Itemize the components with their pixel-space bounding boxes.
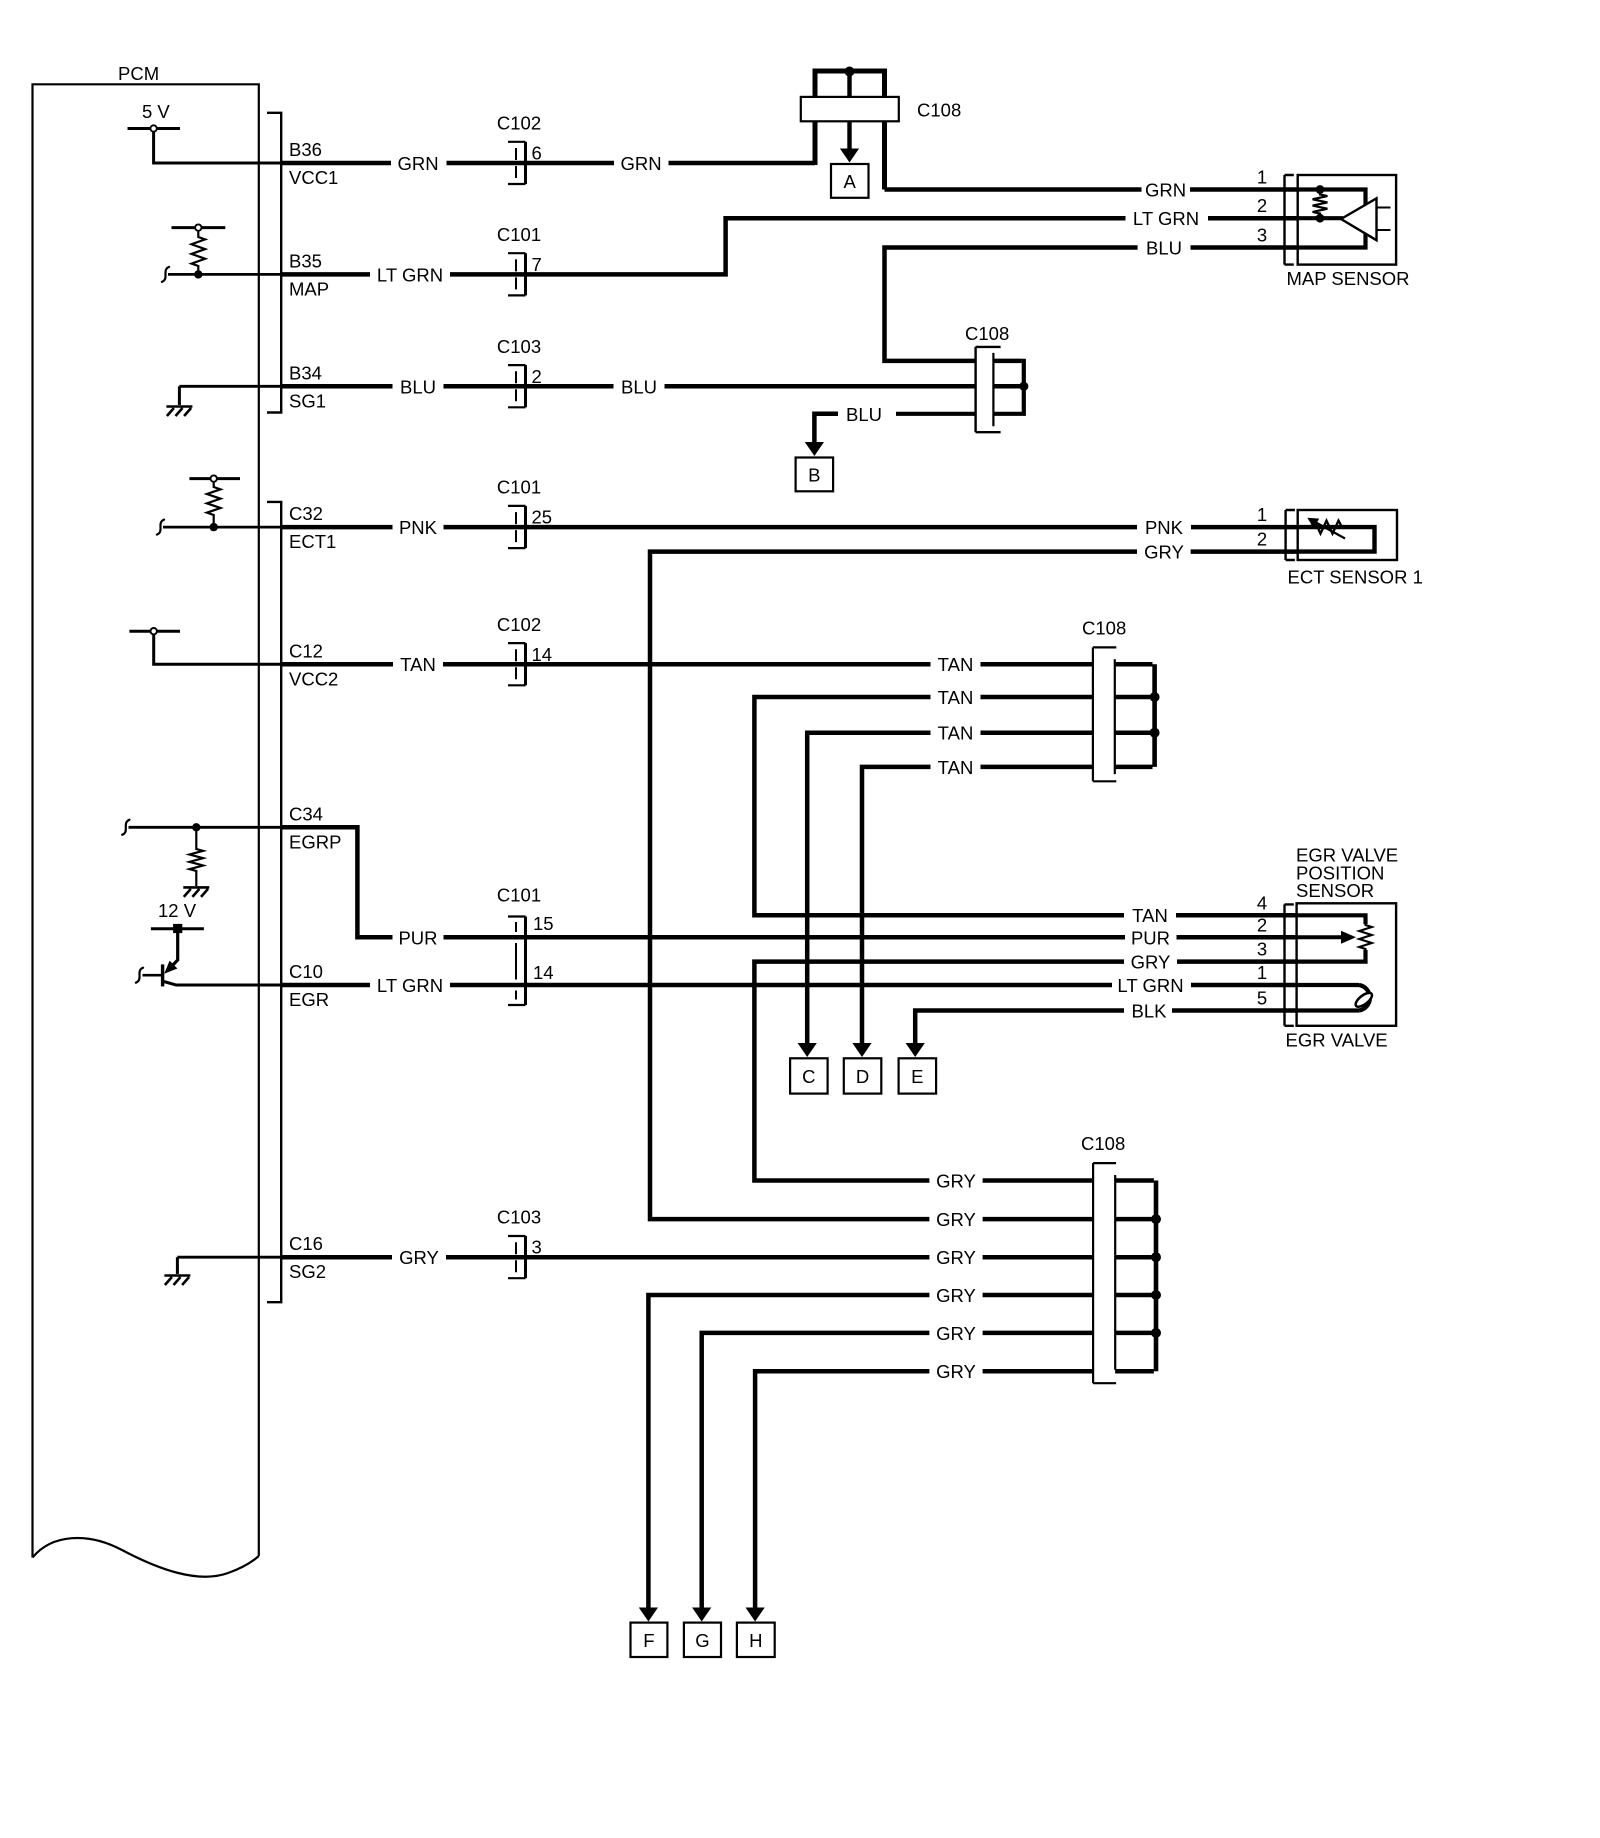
svg-text:GRY: GRY: [936, 1247, 976, 1268]
wire C10 LT GRN segment 1: [281, 983, 370, 988]
wire B34 BLU segment 2: [444, 384, 614, 389]
MAP sensor box: [1298, 175, 1396, 265]
transistor Q1 collector arrowhead: [164, 961, 177, 974]
EGR wiper wire: [1297, 935, 1342, 939]
svg-text:4: 4: [1257, 893, 1267, 914]
wire GRY row3 into C108: [983, 1255, 1154, 1260]
connector C101 pins 15/14 (C34,C10): [508, 917, 526, 1006]
wire TAN into EGR pin 4: [1176, 913, 1297, 918]
svg-text:C108: C108: [1081, 1133, 1125, 1154]
svg-text:2: 2: [1257, 529, 1267, 550]
svg-text:PCM: PCM: [118, 63, 159, 84]
EGR potentiometer wire loop: [1297, 915, 1366, 961]
svg-text:VCC2: VCC2: [289, 668, 338, 689]
svg-text:EGR: EGR: [289, 989, 329, 1010]
thermistor RT1 arrow: [1316, 523, 1345, 539]
svg-text:PNK: PNK: [1145, 517, 1184, 538]
svg-text:C: C: [802, 1066, 815, 1087]
wire PUR into EGR pin 2: [1177, 935, 1298, 940]
wire BLK to arrow E: [915, 1011, 1124, 1046]
connector C102 pin 14 (C12): [508, 643, 526, 685]
svg-text:7: 7: [532, 254, 542, 275]
arrow into E: [906, 1043, 925, 1057]
wire GRY row4 to arrow F: [648, 1295, 1154, 1608]
svg-text:GRY: GRY: [936, 1209, 976, 1230]
wire BLK from EGR pin 5: [1172, 1008, 1297, 1013]
wire VCC2 to C12 pin (inside PCM): [154, 634, 282, 664]
svg-text:C108: C108: [1082, 618, 1126, 639]
wire TAN row3 from splice down to arrow C: [807, 733, 1152, 1045]
transistor Q1 collector from 12 V: [171, 933, 178, 968]
svg-text:GRY: GRY: [936, 1285, 976, 1306]
box A (circuit continuation): [831, 164, 869, 198]
wire PNK into ECT: [1191, 525, 1298, 530]
svg-text:E: E: [911, 1066, 923, 1087]
EGR solenoid coil: [1297, 985, 1359, 1011]
wire break squiggle (Q1 base): [136, 968, 143, 983]
junction dot MAP resistor top: [1316, 185, 1325, 194]
EGR sensor box: [1297, 903, 1397, 1026]
svg-text:C102: C102: [497, 113, 541, 134]
wire break squiggle (C34): [122, 820, 129, 835]
wire B36 GRN segment 2: [447, 161, 615, 166]
svg-text:GRY: GRY: [1131, 952, 1171, 973]
svg-text:SENSOR: SENSOR: [1296, 880, 1374, 901]
wire BLU to arrow B: [814, 414, 838, 442]
VCC2 supply terminal: [129, 630, 180, 633]
wire C34 EGRP jog down to PUR row: [281, 827, 392, 937]
svg-text:VCC1: VCC1: [289, 167, 338, 188]
svg-text:B35: B35: [289, 250, 322, 271]
svg-text:TAN: TAN: [938, 687, 974, 708]
svg-text:5: 5: [1257, 988, 1267, 1009]
wire TAN row1 into C108: [981, 662, 1153, 667]
MAP internal supply/return wire: [1298, 190, 1366, 248]
svg-text:GRY: GRY: [936, 1171, 976, 1192]
thermistor RT1 zigzag: [1311, 521, 1342, 534]
junction dot GRY row5: [1151, 1328, 1161, 1338]
svg-text:C34: C34: [289, 803, 323, 824]
svg-text:C12: C12: [289, 640, 323, 661]
wire B36 GRN segment 1: [281, 161, 391, 166]
junction dot GRY row2: [1151, 1214, 1161, 1224]
svg-text:15: 15: [533, 913, 554, 934]
svg-text:C32: C32: [289, 503, 323, 524]
connector C103 pin 2 (B34): [508, 365, 526, 407]
wire C32 PNK segment 1: [281, 525, 392, 530]
svg-text:B: B: [808, 464, 820, 485]
arrow into D: [852, 1043, 871, 1057]
svg-text:3: 3: [1257, 225, 1267, 246]
wire C108 splice loop (GRN up-over-down to MAP pin 1): [815, 71, 885, 190]
wire BLU from MAP pin 3: [1191, 245, 1299, 250]
svg-text:GRN: GRN: [620, 153, 661, 174]
svg-text:2: 2: [1257, 914, 1267, 935]
svg-text:TAN: TAN: [938, 723, 974, 744]
svg-text:C101: C101: [497, 885, 541, 906]
wire C10 inside PCM: [176, 984, 281, 987]
svg-text:C102: C102: [497, 614, 541, 635]
svg-text:C10: C10: [289, 961, 323, 982]
wire GRN to MAP pin 1: [885, 187, 1142, 192]
connector C102 pin 6 (B36): [508, 142, 526, 184]
svg-text:TAN: TAN: [938, 654, 974, 675]
svg-text:TAN: TAN: [400, 654, 436, 675]
svg-text:C16: C16: [289, 1233, 323, 1254]
12 V supply terminal: [151, 927, 204, 930]
op-amp output stubs: [1377, 208, 1391, 231]
connector C108 (BLU splice): [976, 347, 995, 432]
wire B34 BLU segment 3 into C108 splice: [665, 384, 1022, 389]
box D (circuit continuation): [844, 1058, 882, 1093]
svg-text:TAN: TAN: [1132, 905, 1168, 926]
wire GRY row1 into C108: [983, 1178, 1154, 1183]
wire TAN row4 from splice down to arrow D: [862, 767, 1153, 1045]
wire BLU down to C108: [885, 248, 1138, 361]
connector C101 pin 25 (C32): [508, 506, 526, 548]
svg-text:5 V: 5 V: [142, 101, 170, 122]
wire B35 LT GRN segment 1: [281, 272, 370, 277]
svg-text:C108: C108: [917, 100, 961, 121]
svg-text:6: 6: [532, 143, 542, 164]
wire TAN row2 from splice down to EGR pin 4: [754, 697, 1152, 915]
svg-text:C103: C103: [497, 1207, 541, 1228]
svg-text:1: 1: [1257, 504, 1267, 525]
wire C34 inside PCM: [129, 826, 282, 829]
EGR sensor bracket: [1285, 904, 1294, 1025]
transistor Q1 base bar: [161, 964, 164, 986]
pull-up resistor (C32): [207, 482, 221, 523]
wire B36 GRN segment 3 to C108 splice: [669, 161, 816, 166]
EGR wiper arrowhead: [1341, 931, 1356, 944]
connector C101 pin 7 (B35): [508, 253, 526, 295]
arrow into C: [798, 1043, 817, 1057]
box G (circuit continuation): [684, 1623, 721, 1657]
wire 5V to B36 pin (inside PCM): [154, 131, 282, 163]
GRY splice bus on C108: [1154, 1181, 1159, 1372]
wire Q1 base: [143, 974, 162, 977]
junction dot GRY row3: [1151, 1252, 1161, 1262]
svg-text:C103: C103: [497, 336, 541, 357]
junction dot MAP resistor bottom: [1316, 214, 1325, 223]
connector C108 (top, in-line): [801, 97, 899, 121]
EGR potentiometer resistor: [1359, 921, 1371, 953]
transistor Q1 emitter: [164, 982, 177, 986]
svg-text:C108: C108: [965, 323, 1009, 344]
wire break squiggle (C32): [157, 520, 164, 535]
junction dot B35: [194, 270, 202, 278]
pull-up resistor rail (C32): [189, 477, 240, 480]
pull-up resistor rail (B35): [172, 226, 226, 229]
svg-text:12 V: 12 V: [158, 900, 197, 921]
wire C10 LT GRN segment 2: [450, 983, 1112, 988]
wire GRY row5 to arrow G: [702, 1333, 1154, 1608]
ground symbol (B34/SG1): [178, 386, 181, 405]
PCM box (ECU outline with torn wavy bottom): [33, 84, 259, 1557]
wire GRY down to GRY row1: [754, 962, 1124, 1181]
wire C16 inside PCM: [177, 1256, 281, 1259]
junction dot C32: [210, 523, 218, 531]
ECT sensor box: [1298, 510, 1397, 560]
wire B34 BLU segment 1: [281, 384, 392, 389]
wire GRY row2 into C108: [983, 1217, 1154, 1222]
arrow into H: [746, 1608, 765, 1622]
svg-text:B36: B36: [289, 139, 322, 160]
svg-text:PUR: PUR: [1131, 927, 1170, 948]
arrow into G: [692, 1608, 711, 1622]
pin bracket B36-B34: [267, 113, 281, 413]
svg-text:SG1: SG1: [289, 390, 326, 411]
wire C12 TAN segment 1: [281, 662, 393, 667]
wire break squiggle (B35): [162, 267, 169, 282]
pull-up resistor (B35): [192, 231, 206, 271]
junction dot at C108 splice: [845, 67, 855, 77]
MAP sensor bracket: [1285, 175, 1294, 265]
wire BLU splice return (C108 to arrow B): [896, 359, 1024, 414]
arrow into B: [805, 442, 824, 456]
connector C103 pin 3 (C16): [508, 1236, 526, 1278]
pin bracket C32-C16: [267, 502, 281, 1302]
wire B34 inside PCM: [179, 385, 281, 388]
svg-text:TAN: TAN: [938, 757, 974, 778]
wire B35 inside PCM: [168, 273, 281, 276]
TAN splice bus on C108: [1152, 664, 1157, 767]
ECT sensor bracket: [1286, 510, 1295, 560]
svg-text:PNK: PNK: [399, 517, 438, 538]
svg-text:D: D: [856, 1066, 869, 1087]
svg-text:LT GRN: LT GRN: [1117, 975, 1183, 996]
svg-text:EGR VALVE: EGR VALVE: [1286, 1030, 1388, 1051]
svg-text:ECT1: ECT1: [289, 531, 336, 552]
MAP internal signal wire: [1298, 216, 1343, 220]
wire C12 TAN segment 2: [443, 662, 931, 667]
svg-text:14: 14: [533, 962, 554, 983]
svg-text:BLK: BLK: [1132, 1001, 1168, 1022]
svg-text:2: 2: [1257, 195, 1267, 216]
wire C16 GRY segment 1: [281, 1255, 392, 1260]
wire GRY long run down to C108 splice: [650, 552, 1137, 1220]
arrow into A: [840, 149, 859, 163]
svg-text:1: 1: [1257, 962, 1267, 983]
svg-text:14: 14: [532, 644, 553, 665]
svg-text:GRN: GRN: [1145, 180, 1186, 201]
svg-text:C101: C101: [497, 224, 541, 245]
wire C16 GRY segment 2: [446, 1255, 929, 1260]
wire C32 PNK segment 2: [444, 525, 1138, 530]
svg-text:GRY: GRY: [936, 1323, 976, 1344]
svg-text:MAP: MAP: [289, 278, 329, 299]
wire LT GRN into MAP: [1208, 216, 1298, 221]
wire LT GRN into EGR pin 1: [1191, 983, 1297, 988]
connector C108 (TAN splice): [1093, 647, 1115, 781]
box F (circuit continuation): [631, 1623, 668, 1657]
pull-down resistor (C34): [190, 830, 204, 887]
junction dot TAN row2: [1150, 692, 1160, 702]
svg-text:LT GRN: LT GRN: [1133, 208, 1199, 229]
svg-text:C101: C101: [497, 477, 541, 498]
junction dot C34: [192, 823, 200, 831]
svg-text:GRN: GRN: [397, 153, 438, 174]
wire B35 LT GRN segment 2 with jog up: [450, 218, 1126, 274]
wire PUR segment 2: [444, 935, 1126, 940]
svg-text:GRY: GRY: [936, 1361, 976, 1382]
svg-text:BLU: BLU: [621, 377, 657, 398]
wire C32 inside PCM: [163, 526, 281, 529]
svg-text:ECT SENSOR 1: ECT SENSOR 1: [1288, 567, 1423, 588]
svg-text:1: 1: [1257, 167, 1267, 188]
svg-text:BLU: BLU: [400, 377, 436, 398]
svg-text:3: 3: [1257, 939, 1267, 960]
svg-text:BLU: BLU: [846, 404, 882, 425]
box C (circuit continuation): [790, 1058, 828, 1093]
wire stub from splice junction through C108 to arrow A: [847, 71, 851, 149]
ground symbol (C16/SG2): [176, 1257, 179, 1274]
arrow into F: [639, 1608, 658, 1622]
MAP internal resistor: [1313, 192, 1328, 217]
box E (circuit continuation): [899, 1058, 937, 1093]
box H (circuit continuation): [737, 1623, 775, 1657]
junction dot TAN row3: [1150, 728, 1160, 738]
ground symbol (C34 resistor): [183, 887, 209, 897]
svg-text:GRY: GRY: [399, 1247, 439, 1268]
svg-text:G: G: [695, 1630, 709, 1651]
svg-text:H: H: [749, 1630, 762, 1651]
svg-text:LT GRN: LT GRN: [377, 975, 443, 996]
op-amp U1 (MAP buffer): [1341, 198, 1377, 240]
box B (circuit continuation): [796, 458, 834, 492]
svg-text:LT GRN: LT GRN: [377, 265, 443, 286]
svg-text:3: 3: [532, 1237, 542, 1258]
svg-text:MAP SENSOR: MAP SENSOR: [1287, 268, 1410, 289]
svg-text:BLU: BLU: [1146, 238, 1182, 259]
svg-text:SG2: SG2: [289, 1261, 326, 1282]
wire GRY row6 to arrow H: [755, 1371, 1154, 1608]
svg-text:25: 25: [532, 507, 553, 528]
svg-text:2: 2: [532, 366, 542, 387]
junction dot GRY row4: [1151, 1290, 1161, 1300]
svg-text:F: F: [643, 1630, 654, 1651]
wire GRY from EGR pin 3: [1177, 959, 1297, 964]
thermistor RT1 wire loop: [1298, 527, 1375, 552]
wire GRY from ECT pin 2: [1191, 549, 1298, 554]
svg-text:B34: B34: [289, 362, 322, 383]
svg-text:GRY: GRY: [1144, 542, 1184, 563]
svg-text:EGRP: EGRP: [289, 831, 341, 852]
svg-text:A: A: [844, 171, 857, 192]
5 V supply terminal: [128, 127, 181, 130]
connector C108 (GRY splice): [1093, 1163, 1115, 1383]
svg-text:PUR: PUR: [398, 927, 437, 948]
wire GRN segment into MAP: [1190, 187, 1298, 192]
junction dot BLU splice: [1019, 382, 1028, 391]
